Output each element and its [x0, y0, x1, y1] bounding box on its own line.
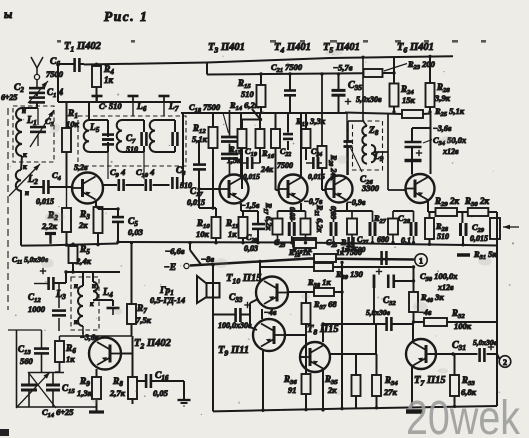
svg-text:2,2к: 2,2к [41, 221, 58, 231]
svg-text:1000: 1000 [28, 304, 46, 314]
svg-text:Т10​ П15: Т10​ П15 [226, 273, 262, 285]
svg-text:Т1​ П402: Т1​ П402 [64, 41, 102, 53]
svg-text:к: к [23, 162, 27, 171]
svg-text:5,0х30в: 5,0х30в [366, 308, 391, 317]
svg-text:Т9​ П11: Т9​ П11 [218, 345, 249, 357]
svg-text:7500: 7500 [46, 69, 64, 79]
svg-text:С· 510: С· 510 [99, 101, 122, 111]
svg-text:0,03: 0,03 [244, 244, 258, 253]
svg-text:−6,6в: −6,6в [165, 246, 185, 256]
svg-text:0,015: 0,015 [36, 197, 54, 206]
svg-text:к: к [74, 318, 78, 326]
svg-text:−8в: −8в [201, 254, 214, 264]
svg-text:к: к [23, 150, 27, 159]
svg-text:1,5к: 1,5к [227, 156, 242, 165]
svg-text:Т6​ П401: Т6​ П401 [397, 42, 434, 54]
svg-text:−Е: −Е [164, 263, 176, 273]
svg-text:100,0х30в: 100,0х30в [218, 321, 252, 330]
svg-text:5,0х30в: 5,0х30в [356, 95, 382, 104]
svg-text:−4в: −4в [264, 308, 277, 317]
svg-text:1к: 1к [66, 354, 75, 364]
svg-text:15к: 15к [402, 95, 416, 105]
svg-text:−5,7в: −5,7в [333, 63, 353, 73]
svg-text:7500: 7500 [277, 161, 293, 170]
svg-text:0,015: 0,015 [187, 198, 205, 207]
svg-text:2,4к: 2,4к [75, 256, 92, 266]
svg-text:3,9к: 3,9к [434, 93, 451, 103]
svg-text:Т4​ П401: Т4​ П401 [274, 42, 311, 54]
svg-text:680: 680 [377, 235, 389, 244]
svg-text:2: 2 [503, 358, 507, 367]
svg-text:2к: 2к [78, 220, 88, 230]
svg-text:510: 510 [437, 232, 449, 241]
svg-text:10к: 10к [196, 229, 210, 239]
svg-text:0,05: 0,05 [153, 388, 169, 398]
svg-text:Т2​ П402: Т2​ П402 [134, 338, 172, 350]
svg-text:−0,7в: −0,7в [304, 197, 323, 206]
svg-text:5,2в: 5,2в [74, 163, 88, 172]
svg-text:0,1: 0,1 [401, 236, 411, 245]
svg-text:х12в: х12в [442, 147, 459, 156]
svg-text:510: 510 [126, 145, 138, 154]
svg-text:91: 91 [288, 385, 297, 395]
svg-text:510: 510 [241, 89, 255, 99]
svg-text:3300: 3300 [361, 183, 380, 193]
svg-text:1: 1 [419, 257, 423, 266]
svg-text:1к: 1к [228, 229, 237, 239]
svg-text:0,03: 0,03 [329, 206, 338, 219]
svg-text:−3,6в: −3,6в [433, 124, 452, 133]
svg-text:2,7к: 2,7к [109, 388, 126, 398]
svg-text:Т7​ П15: Т7​ П15 [414, 375, 446, 387]
svg-text:х12в: х12в [437, 283, 454, 292]
svg-text:27к: 27к [383, 387, 398, 397]
svg-text:560: 560 [20, 356, 34, 366]
svg-text:н: н [92, 282, 96, 290]
svg-text:0,015: 0,015 [308, 172, 325, 181]
svg-text:6÷25: 6÷25 [1, 93, 17, 102]
svg-text:100к: 100к [454, 321, 472, 331]
svg-text:−0,9в: −0,9в [347, 198, 366, 207]
svg-text:к: к [90, 300, 94, 308]
svg-text:0,03: 0,03 [288, 207, 297, 220]
svg-text:−1,5в: −1,5в [241, 201, 260, 210]
svg-text:24к: 24к [260, 165, 274, 174]
svg-text:1,3к: 1,3к [77, 388, 93, 398]
svg-text:0,03: 0,03 [128, 227, 144, 237]
svg-text:н: н [74, 282, 78, 290]
svg-text:5,1к: 5,1к [192, 134, 208, 144]
svg-text:н: н [22, 107, 26, 115]
svg-text:20wek: 20wek [406, 392, 521, 438]
svg-text:5,0х30в: 5,0х30в [473, 338, 498, 347]
svg-text:0,015: 0,015 [243, 172, 260, 181]
svg-text:0,5-ГД-14: 0,5-ГД-14 [150, 295, 185, 305]
svg-text:0,015: 0,015 [470, 234, 488, 243]
svg-text:7,5к: 7,5к [136, 315, 152, 325]
svg-text:Рис. 1: Рис. 1 [104, 9, 148, 24]
svg-text:Т3​ П401: Т3​ П401 [208, 42, 245, 54]
svg-text:ы: ы [4, 7, 12, 21]
svg-text:н: н [25, 189, 29, 197]
svg-text:1к: 1к [104, 75, 114, 85]
